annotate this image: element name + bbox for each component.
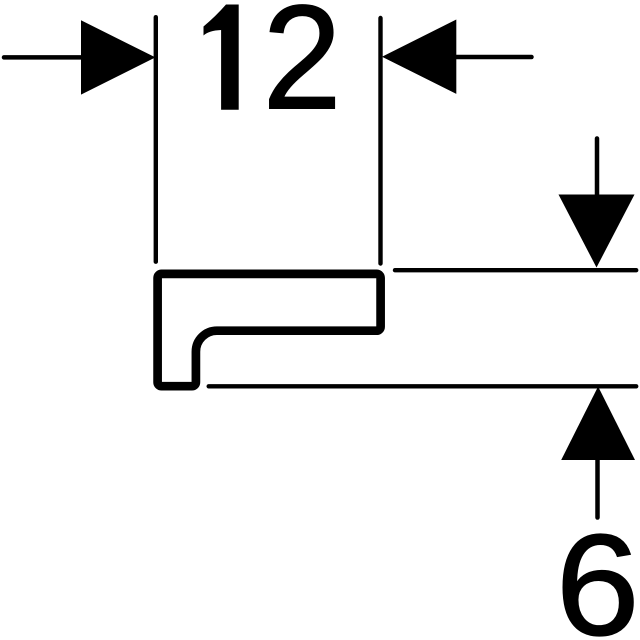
leader line down (dim 6 top) (595, 139, 600, 201)
profile outline (cover profile cross-section) (158, 274, 381, 386)
leader line up (dim 6 bottom) (595, 455, 600, 518)
leader line right (dim 12) (452, 55, 532, 60)
arrowhead up-pointing (dim 6) (561, 387, 635, 461)
arrowhead right-pointing (dim 12 left) (81, 20, 155, 94)
arrowhead down-pointing (dim 6) (559, 195, 635, 268)
reference line top (dim 6) (395, 268, 636, 272)
dimension label "12" : digit 1 (204, 5, 239, 110)
arrowhead left-pointing (dim 12 right) (382, 20, 456, 94)
extension line left (dim 12) (154, 17, 158, 262)
reference line bottom (dim 6) (209, 384, 637, 388)
extension line right (dim 12) (378, 18, 382, 264)
svg-text:6: 6 (556, 505, 640, 640)
svg-text:2: 2 (262, 0, 341, 140)
leader line left (dim 12) (4, 55, 85, 60)
